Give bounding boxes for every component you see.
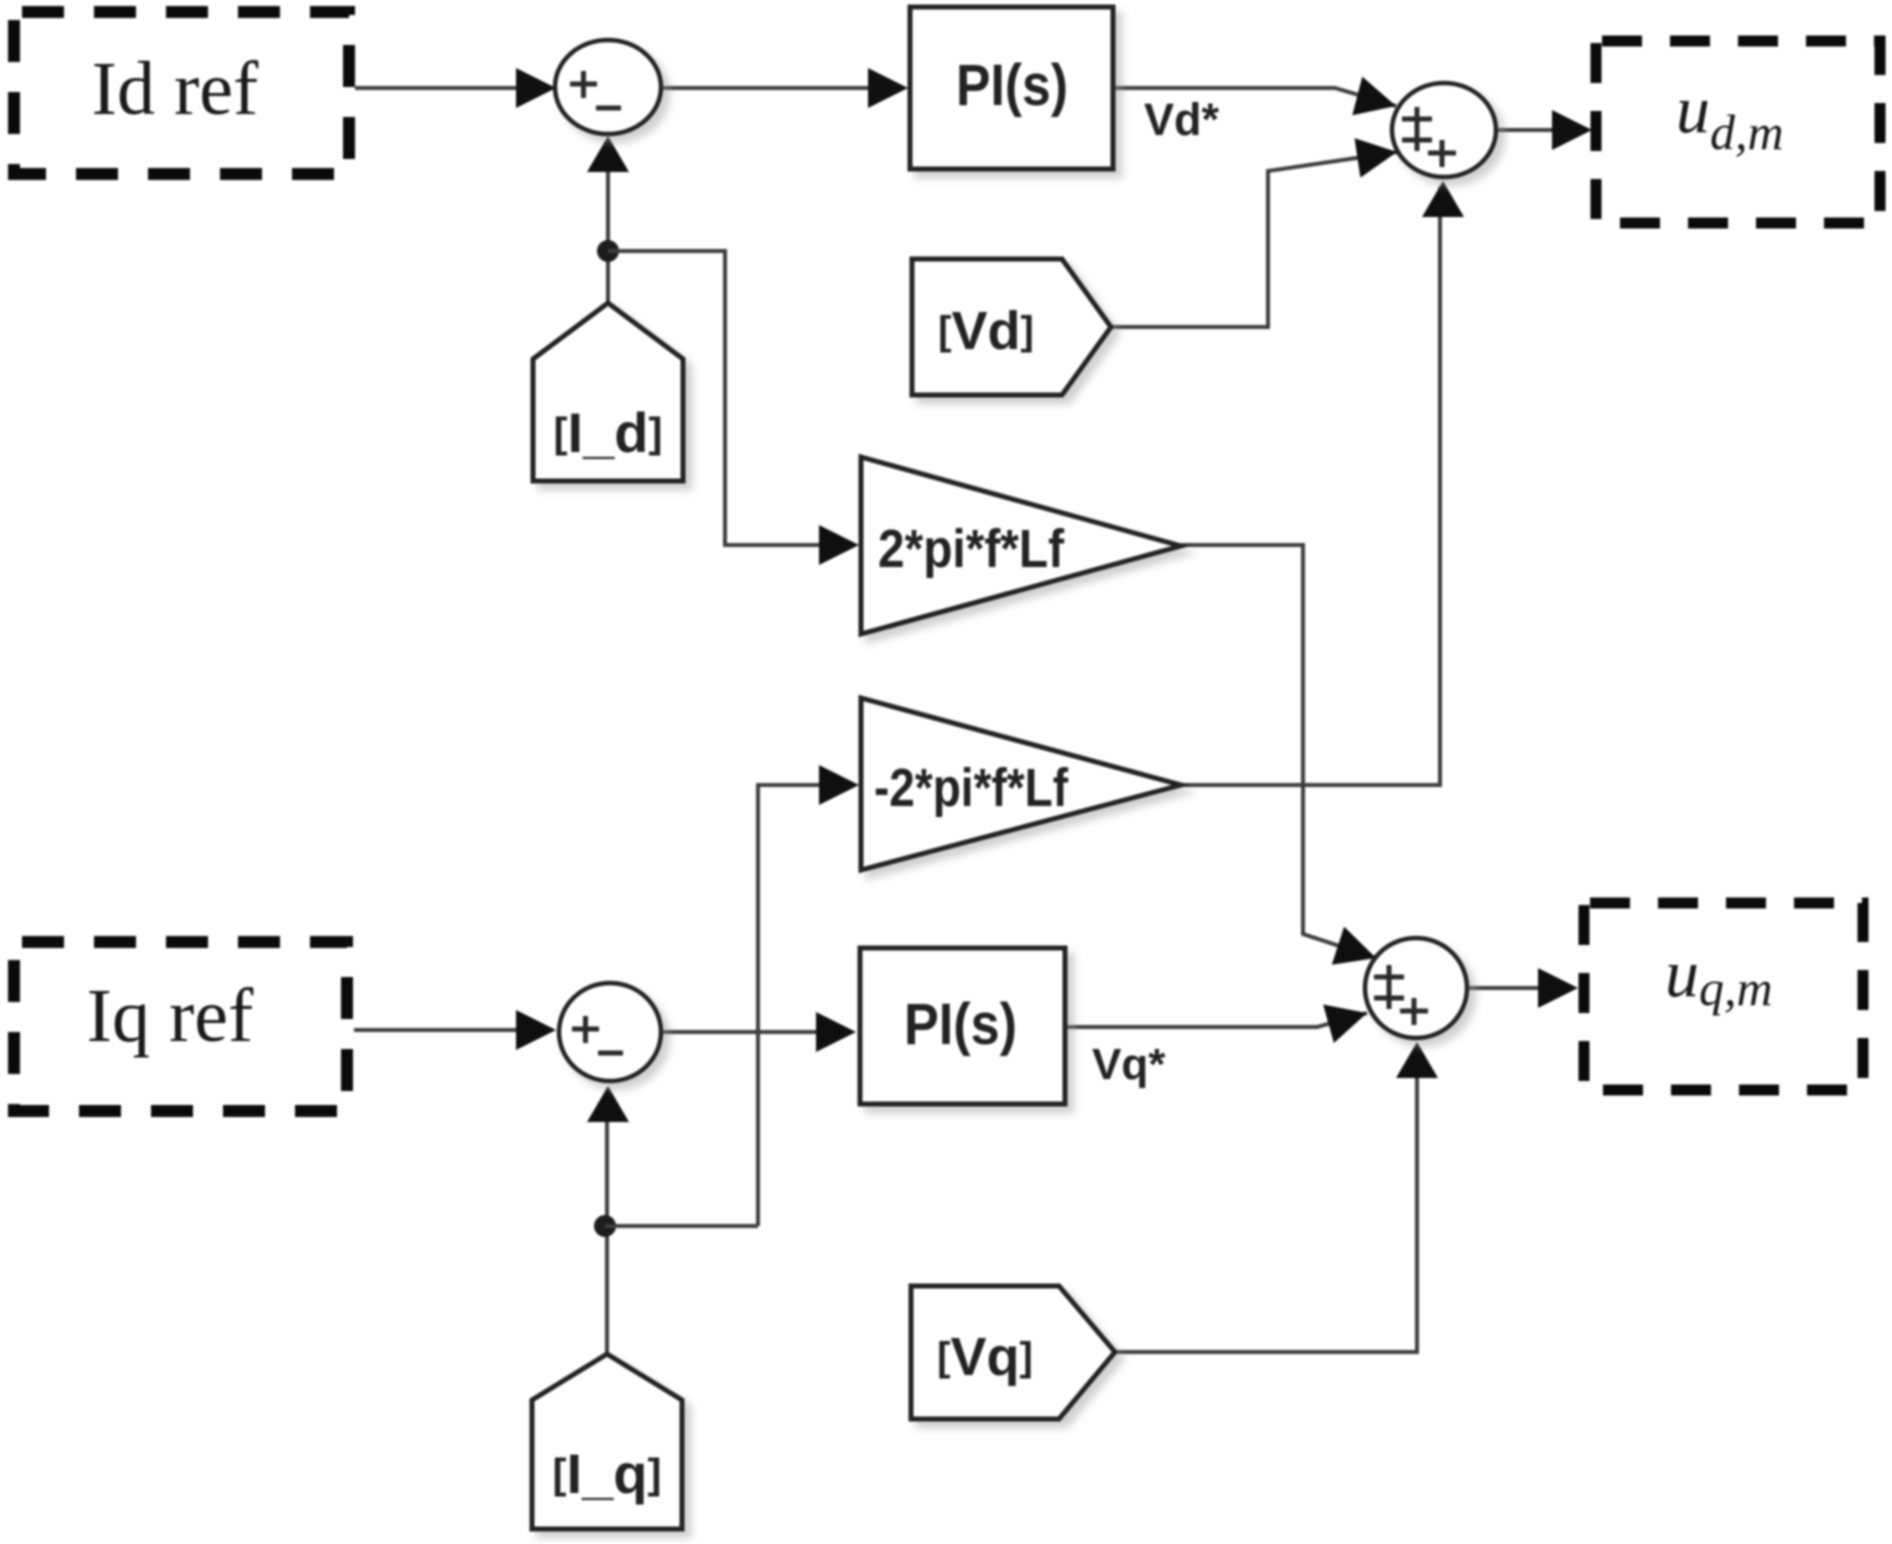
junction node on I_q feedback	[594, 1215, 616, 1237]
PI controller q-axis PI(s)	[860, 948, 1065, 1104]
arrowhead into sum S2	[516, 1010, 556, 1050]
wire sum S1 to PI(s) d-axis	[661, 86, 876, 90]
goto tag [I_q]	[532, 1354, 682, 1529]
svg-text:Vd*: Vd*	[1144, 94, 1220, 145]
arrowhead into adder A2 left input	[1323, 1005, 1367, 1044]
wire tag [I_q] up to sum S2	[605, 1090, 609, 1354]
svg-text:ud,m: ud,m	[1676, 71, 1784, 160]
arrowhead into adder A1 bottom	[1422, 181, 1464, 217]
sum block S1	[555, 40, 661, 134]
svg-text:[I_d]: [I_d]	[554, 401, 663, 464]
input port Iq ref (dashed)	[14, 942, 347, 1111]
arrowhead into adder A2 bottom	[1396, 1042, 1438, 1078]
svg-text:Id ref: Id ref	[92, 47, 259, 131]
wire branch I_q to gain G2	[605, 1224, 758, 1228]
svg-text:[Vd]: [Vd]	[938, 301, 1034, 361]
arrowhead into sum S1	[516, 68, 556, 108]
wire branch I_d to gain G1	[608, 251, 828, 545]
output port u_q,m (dashed)	[1584, 903, 1863, 1090]
wire Iq ref to sum S2	[354, 1028, 524, 1032]
svg-text:[Vq]: [Vq]	[937, 1327, 1033, 1387]
svg-text:[I_q]: [I_q]	[553, 1442, 662, 1505]
gain block G2 -2*pi*f*Lf	[861, 698, 1181, 870]
wire PI(s) output Vd* to adder A1	[1113, 88, 1396, 106]
svg-text:2*pi*f*Lf: 2*pi*f*Lf	[878, 519, 1065, 579]
junction node on I_d feedback	[597, 240, 619, 262]
svg-text:uq,m: uq,m	[1665, 935, 1773, 1016]
svg-text:PI(s): PI(s)	[904, 992, 1017, 1057]
goto tag [I_d]	[533, 303, 683, 481]
PI controller d-axis PI(s)	[910, 7, 1113, 169]
wire sum S2 to PI(s) q-axis	[661, 1030, 824, 1034]
arrowhead into gain G2	[819, 765, 859, 805]
gain block G1 2*pi*f*Lf	[861, 457, 1181, 634]
wire gain G1 output to adder A2	[1181, 545, 1376, 958]
wire PI(s) output Vq* to adder A2	[1065, 1013, 1367, 1027]
arrowhead into gain G1	[819, 525, 859, 565]
arrowhead into sum S2 bottom	[587, 1086, 629, 1122]
wire adder A1 to output u_d,m	[1496, 128, 1556, 132]
svg-text:Iq ref: Iq ref	[87, 974, 254, 1058]
svg-text:-2*pi*f*Lf: -2*pi*f*Lf	[874, 758, 1069, 818]
from tag [Vq]	[911, 1286, 1115, 1419]
arrowhead into sum S1 bottom	[587, 136, 629, 172]
svg-text:PI(s): PI(s)	[956, 53, 1068, 118]
sum block S2	[559, 983, 661, 1081]
arrowhead into adder A2 upper input	[1332, 927, 1376, 965]
wire tag [Vq] to adder A2 bottom	[1115, 1046, 1417, 1352]
arrowhead into PI(s) d-axis	[868, 68, 908, 108]
wire Id ref to sum S1	[355, 86, 524, 90]
wire gain G2 output to adder A1 bottom	[1181, 187, 1440, 785]
adder block A1	[1392, 83, 1496, 177]
wire tag [I_d] up to sum S1	[606, 142, 610, 303]
wire Iq feedback to gain G2	[758, 785, 828, 1226]
arrowhead into PI(s) q-axis	[816, 1012, 856, 1052]
arrowhead into adder A1 upper input	[1352, 77, 1396, 116]
output port u_d,m (dashed)	[1596, 41, 1880, 223]
wire adder A2 to output u_q,m	[1467, 986, 1542, 990]
arrowhead into u_d,m	[1552, 110, 1592, 150]
arrowhead into u_q,m	[1538, 968, 1578, 1008]
from tag [Vd]	[912, 259, 1111, 395]
arrowhead into adder A1 lower input	[1355, 138, 1398, 178]
svg-text:Vq*: Vq*	[1092, 1040, 1166, 1089]
wire tag [Vd] to adder A1	[1111, 152, 1397, 327]
input port Id ref (dashed)	[14, 12, 349, 174]
adder block A2	[1365, 938, 1467, 1038]
